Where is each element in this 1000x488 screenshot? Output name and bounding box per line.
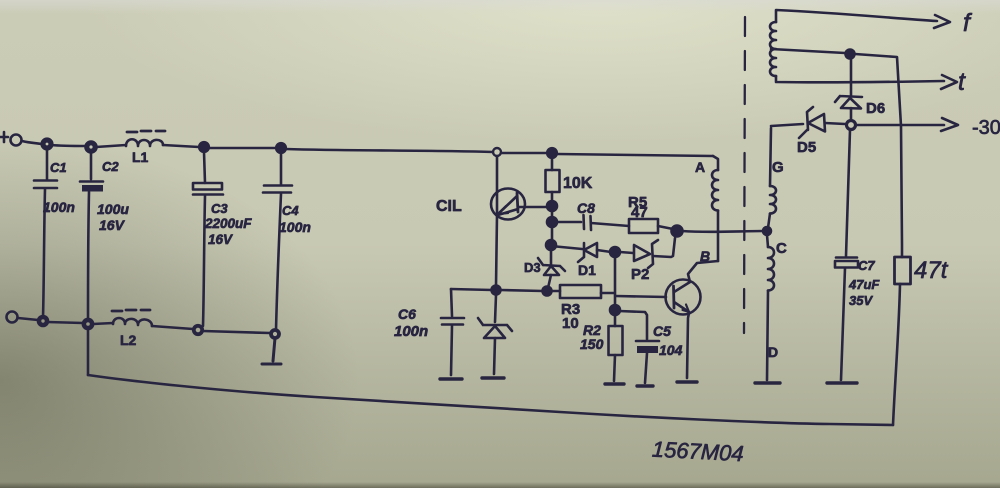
svg-text:100n: 100n	[43, 199, 75, 215]
inductor L2	[113, 318, 152, 326]
dashed separation line	[744, 17, 745, 333]
svg-text:C6: C6	[398, 306, 416, 322]
ground stub below C5	[637, 384, 653, 387]
resistor 10K	[546, 158, 593, 201]
zener (unlabelled, emitter clamp)	[478, 295, 512, 374]
input terminal top	[11, 135, 22, 146]
svg-text:A: A	[695, 159, 705, 175]
node junction (base of CIL)	[547, 201, 557, 211]
ground stub below zener	[482, 376, 504, 379]
winding C (primary)	[767, 235, 787, 380]
svg-text:C1: C1	[50, 160, 67, 175]
svg-text:G: G	[772, 159, 784, 176]
wire	[51, 145, 86, 146]
svg-text:C4: C4	[282, 203, 299, 218]
wire	[22, 141, 42, 144]
svg-text:D: D	[768, 344, 778, 360]
node junction (R5/P2/B link)	[672, 226, 683, 237]
svg-text:CIL: CIL	[436, 198, 462, 215]
capacitor C7 (polarized)	[835, 130, 880, 380]
wire (secondary top out)	[776, 10, 937, 22]
node B wire (to Q2 collector)	[688, 248, 718, 282]
svg-text:-30: -30	[972, 117, 1000, 139]
node junction (-30 / C7)	[847, 121, 856, 130]
svg-text:10K: 10K	[563, 175, 593, 192]
svg-text:f: f	[963, 9, 973, 37]
capacitor C3 (polarized)	[193, 152, 252, 326]
svg-text:35V: 35V	[849, 293, 873, 308]
svg-text:D1: D1	[578, 262, 596, 278]
secondary winding	[770, 22, 776, 76]
svg-text:C2: C2	[102, 159, 119, 174]
svg-text:D6: D6	[866, 100, 885, 117]
svg-text:P2: P2	[631, 266, 649, 283]
transistor Q2	[666, 280, 701, 379]
svg-text:C: C	[776, 240, 787, 257]
ground stub below Q2	[677, 380, 697, 383]
arrow output f	[934, 15, 950, 28]
ground stub below C4	[262, 338, 281, 364]
arrow output -30	[941, 118, 958, 131]
ground stub below C7	[827, 381, 857, 384]
inductor L1 core dashes	[127, 131, 165, 132]
svg-text:D3: D3	[524, 260, 541, 275]
node (CIL collector tap)	[493, 148, 501, 156]
svg-text:1567M04: 1567M04	[651, 437, 744, 467]
resistor R5	[628, 194, 673, 233]
wire (tap to right riser)	[855, 54, 902, 257]
zener D3	[524, 250, 565, 288]
diode P2 (zener)	[620, 238, 675, 283]
node junction (10K top)	[547, 148, 557, 158]
wire (Q2 base)	[616, 296, 666, 297]
node junction (C2 bottom)	[84, 320, 92, 328]
wire (secondary centre tap)	[771, 49, 845, 53]
node junction (C4 top)	[276, 143, 286, 153]
capacitor C2 (polarized)	[80, 151, 129, 321]
ground stub below winding C	[755, 381, 780, 384]
winding G (primary)	[768, 128, 784, 228]
node junction (R3 left)	[543, 287, 552, 296]
svg-text:L1: L1	[132, 149, 149, 165]
wire (-30 line left segment)	[771, 124, 803, 126]
wire	[551, 227, 554, 240]
wire	[93, 323, 113, 324]
wire (D1 node down to R3 right)	[614, 257, 617, 307]
svg-text:10: 10	[562, 315, 579, 332]
capacitor C4	[263, 153, 311, 330]
wire	[18, 318, 38, 320]
svg-text:C8: C8	[577, 200, 595, 216]
node junction G/C	[763, 227, 771, 235]
wire	[152, 326, 193, 329]
plus input polarity mark	[0, 132, 8, 142]
wire (R5 node to G/C junction)	[682, 230, 764, 233]
ground stub below R2	[605, 382, 624, 385]
resistor R3	[551, 285, 614, 332]
node junction (C2 top)	[87, 143, 95, 151]
node junction (C8 tap)	[547, 217, 557, 227]
capacitor C5 (polarized)	[619, 311, 683, 383]
node junction (tap)	[846, 50, 855, 59]
svg-text:D5: D5	[797, 139, 816, 156]
svg-text:100n: 100n	[394, 323, 428, 340]
wire	[96, 145, 126, 147]
svg-text:t: t	[958, 68, 966, 96]
inductor L1	[126, 139, 163, 146]
wire (-30 line right segment)	[856, 124, 944, 127]
wire	[557, 154, 713, 156]
node junction (D1/P2/R3)	[610, 247, 620, 257]
svg-text:2200uF: 2200uF	[204, 216, 252, 231]
svg-text:100u: 100u	[97, 201, 129, 217]
wire (right riser to 47t)	[893, 284, 900, 425]
svg-text:16V: 16V	[208, 232, 233, 247]
inductor L2 core dashes	[112, 310, 150, 311]
wire	[501, 152, 547, 155]
wire	[551, 211, 554, 218]
node junction (C3 bottom)	[194, 326, 202, 334]
node junction (C3 top)	[199, 142, 209, 152]
node junction (C4 bottom)	[271, 330, 279, 338]
svg-text:C3: C3	[211, 201, 228, 216]
resistor R2	[580, 315, 623, 381]
diode D1	[551, 243, 611, 278]
capacitor C6	[394, 289, 492, 375]
node junction (C1 top)	[43, 140, 51, 148]
zener D5	[797, 107, 845, 156]
svg-text:B: B	[700, 248, 710, 264]
arrow output t	[941, 75, 957, 89]
svg-text:C7: C7	[858, 258, 875, 273]
wire	[500, 290, 543, 291]
zener D6	[835, 58, 885, 119]
wire (secondary bottom out)	[776, 76, 944, 82]
ground stub below C6	[440, 377, 462, 380]
svg-text:47t: 47t	[914, 257, 949, 284]
wire	[286, 149, 493, 152]
capacitor C1	[34, 148, 75, 318]
node junction (D1/D3 tap)	[546, 240, 556, 250]
node junction (emitter row left)	[492, 286, 501, 295]
wire (long bottom bus)	[88, 375, 893, 425]
input terminal bottom	[7, 312, 18, 323]
node junction (C1 bottom)	[39, 317, 47, 325]
svg-text:150: 150	[580, 336, 604, 352]
wire	[203, 331, 270, 333]
svg-text:47uF: 47uF	[848, 277, 880, 292]
node junction (R2/C5 tap)	[610, 305, 620, 315]
svg-text:104: 104	[659, 342, 683, 358]
transistor CIL	[436, 156, 548, 286]
wire	[209, 147, 276, 150]
svg-text:L2: L2	[120, 332, 137, 348]
winding A (primary)	[695, 156, 718, 261]
svg-text:100n: 100n	[279, 219, 311, 235]
wire	[47, 322, 83, 323]
wire (C2 column down to bottom bus)	[87, 328, 90, 375]
capacitor C8	[552, 200, 629, 230]
svg-text:C5: C5	[653, 323, 671, 339]
svg-text:47: 47	[631, 204, 648, 221]
resistor 47t	[895, 257, 949, 284]
wire	[163, 145, 199, 147]
svg-text:16V: 16V	[99, 217, 126, 233]
